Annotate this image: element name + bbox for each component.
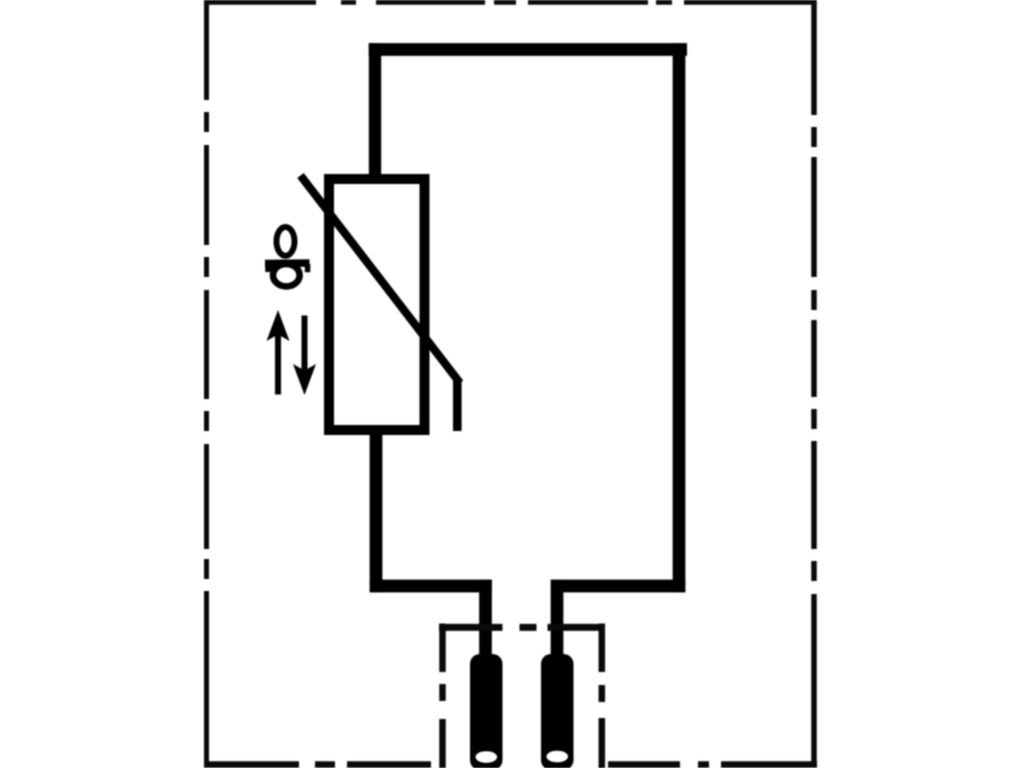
thermistor body bbox=[329, 179, 425, 430]
arrow down (decrease) bbox=[293, 316, 316, 396]
thermistor diagonal stroke bbox=[301, 176, 461, 384]
connector box top edge (dash-dot) bbox=[439, 624, 605, 631]
enclosure border right (dash-dot) bbox=[811, 0, 817, 767]
temperature symbol theta: upper loop bbox=[277, 227, 295, 256]
wire: left drop to thermistor top bbox=[369, 43, 381, 180]
enclosure border left (dash-dot) bbox=[204, 0, 209, 767]
pin 1 (left terminal) bbox=[470, 654, 503, 768]
wire: top horizontal bbox=[369, 43, 687, 56]
thermistor diagonal tail bbox=[453, 379, 462, 431]
temperature symbol theta: right serif hook bbox=[305, 264, 311, 272]
connector box left edge (dash-dot) bbox=[439, 624, 446, 768]
wire: lower-right horizontal bbox=[551, 580, 685, 593]
connector box right edge (dash-dot) bbox=[599, 624, 606, 768]
wire: right pin stub bbox=[551, 580, 564, 662]
wire: thermistor bottom drop bbox=[370, 428, 383, 592]
temperature symbol theta: crossbar bbox=[265, 259, 310, 267]
wire: lower-left horizontal bbox=[370, 580, 492, 593]
enclosure border top (dash-dot) bbox=[204, 0, 816, 5]
wire: right vertical drop bbox=[673, 43, 686, 592]
temperature symbol theta: lower loop bbox=[273, 264, 300, 286]
wire: left pin stub bbox=[479, 580, 492, 662]
pin 2 (right terminal) bbox=[541, 654, 574, 768]
arrow up (increase) bbox=[267, 310, 290, 395]
temperature symbol theta: left serif tick bbox=[265, 264, 272, 272]
enclosure border bottom (dash-dot) bbox=[204, 761, 817, 768]
